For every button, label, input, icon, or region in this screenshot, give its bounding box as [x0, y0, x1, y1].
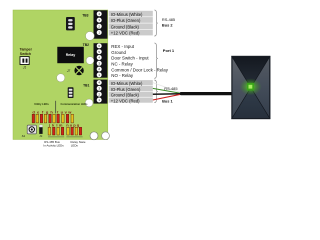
LED bank relay row2 — [67, 127, 82, 135]
svg-text:Tamper: Tamper — [20, 48, 33, 52]
brace RS-485 Bus 1 — [154, 80, 158, 103]
svg-text:REX - Input: REX - Input — [111, 44, 134, 49]
svg-text:Ground (Black): Ground (Black) — [111, 93, 140, 98]
svg-text:IO-Plus (Green): IO-Plus (Green) — [111, 18, 141, 23]
svg-text:RS-485: RS-485 — [164, 86, 177, 91]
wire white IO-Minus — [153, 83, 181, 93]
svg-text:NC - Relay: NC - Relay — [111, 62, 133, 67]
TB3 label rows — [109, 11, 153, 36]
connector TB2 — [94, 43, 108, 77]
TB2 pin labels — [111, 44, 168, 78]
svg-text:TB2: TB2 — [83, 43, 89, 47]
svg-text:Bus 2: Bus 2 — [162, 23, 173, 28]
mounting hole — [90, 132, 98, 140]
mounting hole — [86, 57, 94, 65]
LED bank utility row1 — [32, 114, 55, 123]
LED section titles — [34, 102, 88, 106]
brace RS-485 Bus 2 — [154, 10, 158, 36]
svg-text:LEDs: LEDs — [71, 143, 79, 147]
svg-text:Ground (Black): Ground (Black) — [111, 24, 140, 29]
LED letters row2 — [48, 122, 80, 127]
svg-text:In-Activity LEDs: In-Activity LEDs — [43, 143, 64, 147]
svg-text:J7: J7 — [67, 69, 71, 73]
svg-text:l: l — [56, 122, 57, 127]
svg-text:S1: S1 — [22, 134, 26, 138]
svg-text:Communication LEDs: Communication LEDs — [61, 102, 89, 106]
cable to reader — [180, 92, 233, 95]
wire green IO-Plus — [153, 88, 181, 93]
mounting hole — [86, 32, 95, 41]
bracket relay LEDs — [66, 136, 82, 138]
svg-text:Door Switch - Input: Door Switch - Input — [111, 56, 149, 61]
svg-text:TB3: TB3 — [82, 13, 88, 17]
svg-text:J1: J1 — [39, 134, 43, 138]
svg-text:RS-485: RS-485 — [162, 17, 175, 22]
svg-text:Bus 1: Bus 1 — [162, 99, 173, 104]
reader LED glow — [0, 0, 1, 1]
svg-text:IO-Plus (Green): IO-Plus (Green) — [111, 87, 141, 92]
jumper J2 — [66, 17, 75, 30]
tamper switch label — [20, 48, 33, 57]
relay K1 — [57, 47, 84, 63]
caption relay state LEDs — [71, 140, 86, 147]
svg-text:Port 1: Port 1 — [163, 48, 175, 53]
mounting hole — [85, 99, 93, 107]
mounting hole — [57, 74, 65, 82]
reader R1 — [232, 56, 271, 119]
svg-text:IO-Minus (White): IO-Minus (White) — [111, 12, 143, 17]
svg-text:Switch: Switch — [20, 52, 31, 56]
connector TB1 — [94, 80, 108, 104]
brace Port 1 — [154, 43, 158, 78]
wire black Ground — [153, 93, 181, 95]
svg-text:+12 VDC (Red): +12 VDC (Red) — [111, 98, 140, 103]
svg-text:NO - Relay: NO - Relay — [111, 73, 134, 78]
svg-text:Ground: Ground — [111, 50, 126, 55]
LED bank comm row1 — [57, 114, 74, 123]
capacitor C1 — [39, 125, 42, 134]
bracket bus LEDs — [48, 136, 64, 138]
buzzer J7 — [74, 66, 83, 75]
svg-text:Common / Door Lock - Relay: Common / Door Lock - Relay — [111, 67, 168, 72]
connector TB3 — [94, 10, 108, 38]
jumper J4 — [68, 87, 74, 98]
svg-text:TB1: TB1 — [83, 84, 89, 88]
TB1 label rows — [109, 80, 153, 103]
mounting hole — [102, 132, 110, 140]
svg-text:J1: J1 — [23, 66, 27, 70]
tamper switch J1 — [20, 57, 29, 65]
LED letters row1 — [32, 109, 72, 114]
PCB board — [13, 10, 108, 140]
svg-text:IO-Minus (White): IO-Minus (White) — [111, 81, 143, 86]
svg-text:Utility LEDs: Utility LEDs — [34, 102, 49, 106]
divider line — [55, 101, 57, 114]
svg-text:m: m — [59, 122, 63, 127]
caption RS-485 bus LEDs — [43, 140, 64, 147]
button S1 — [27, 125, 36, 134]
LED bank bus row2 — [48, 127, 64, 135]
net RS-485 Bus 2 — [162, 17, 175, 27]
wire red +12VDC — [153, 94, 181, 100]
svg-text:Relay: Relay — [66, 53, 76, 57]
net RS-485 Bus 1 — [162, 86, 177, 104]
svg-text:j: j — [48, 122, 50, 127]
svg-text:+12 VDC (Red): +12 VDC (Red) — [111, 31, 140, 36]
